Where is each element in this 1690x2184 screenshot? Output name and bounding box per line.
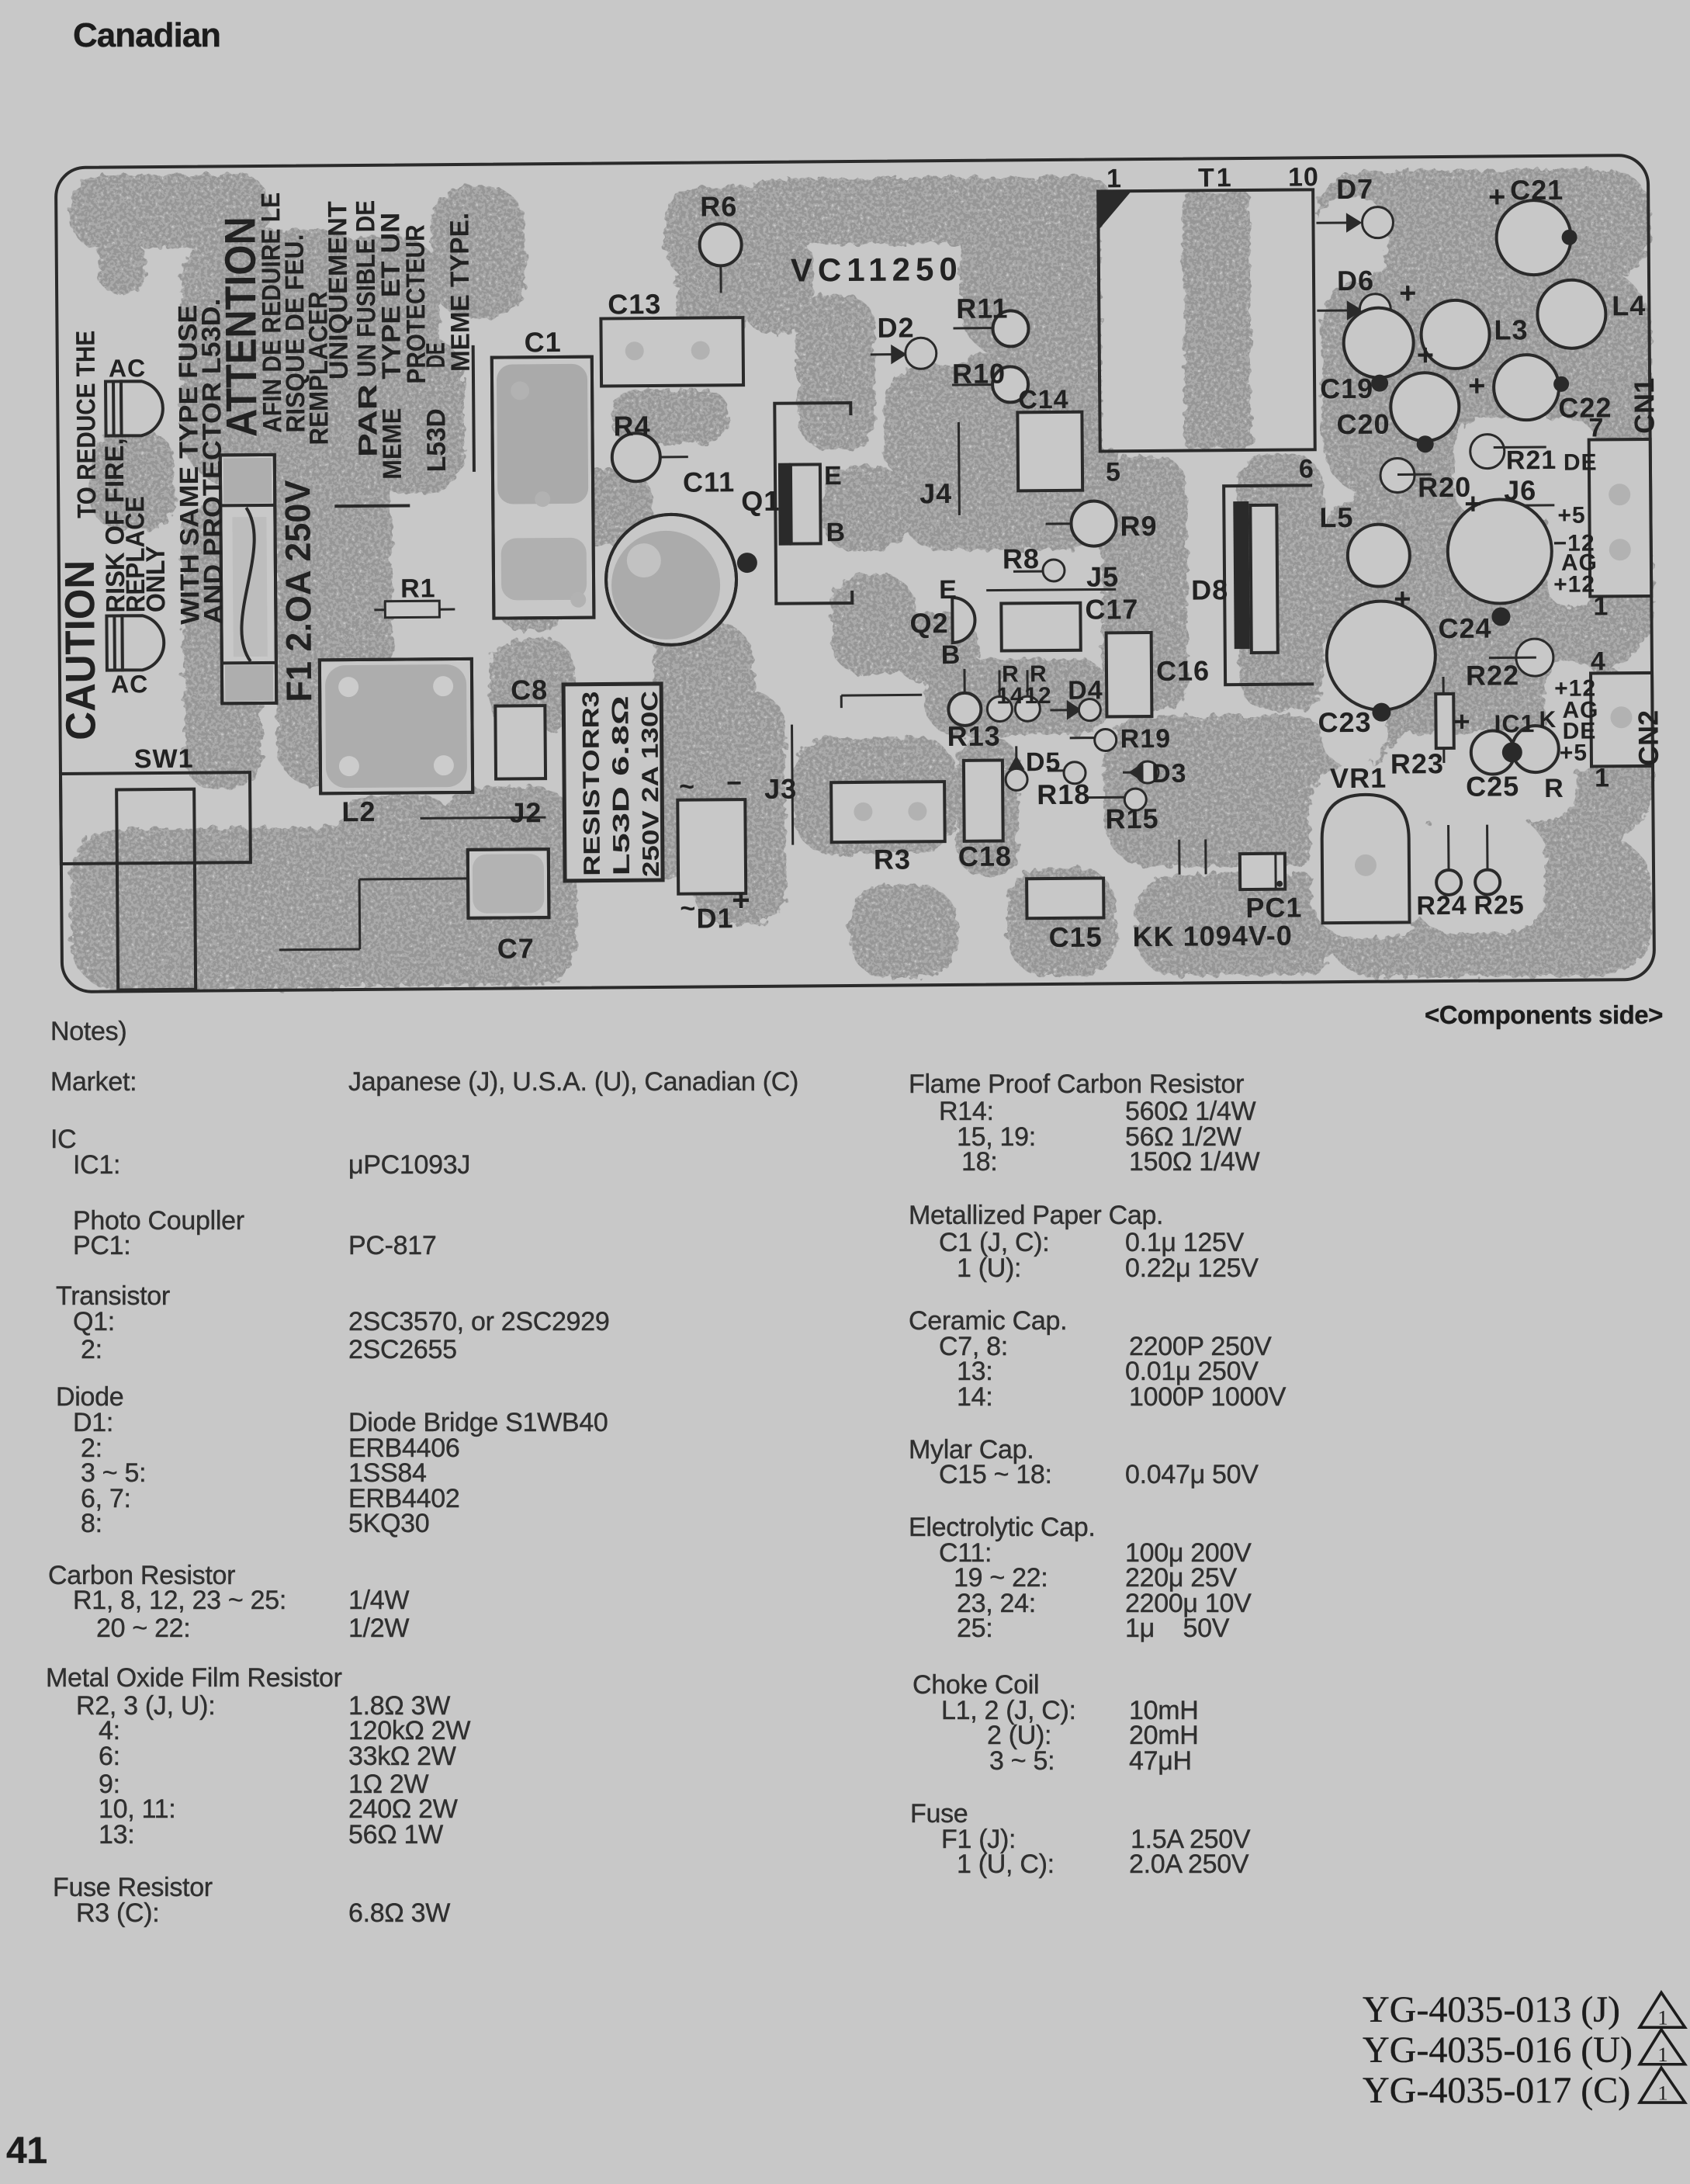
svg-text:MEME: MEME bbox=[377, 408, 407, 480]
svg-text:D5: D5 bbox=[1026, 747, 1061, 777]
svg-text:+5: +5 bbox=[1557, 503, 1585, 529]
svg-text:E: E bbox=[824, 461, 843, 491]
svg-text:6: 6 bbox=[1299, 454, 1314, 484]
svg-text:R: R bbox=[1544, 774, 1564, 803]
svg-text:L2: L2 bbox=[341, 796, 376, 827]
svg-text:Q2: Q2 bbox=[909, 607, 948, 639]
svg-text:MEME TYPE.: MEME TYPE. bbox=[445, 213, 476, 372]
svg-text:L53D: L53D bbox=[421, 408, 452, 472]
svg-text:VC11250: VC11250 bbox=[791, 251, 963, 289]
svg-text:R3: R3 bbox=[874, 843, 911, 875]
svg-text:C25: C25 bbox=[1466, 770, 1519, 803]
svg-text:C1: C1 bbox=[524, 326, 561, 358]
svg-text:C20: C20 bbox=[1336, 408, 1390, 441]
svg-text:IC1: IC1 bbox=[1494, 709, 1535, 737]
svg-text:J4: J4 bbox=[919, 477, 952, 509]
svg-text:R22: R22 bbox=[1466, 659, 1519, 692]
svg-text:J3: J3 bbox=[764, 773, 797, 805]
svg-text:R11: R11 bbox=[956, 292, 1008, 324]
svg-text:R13: R13 bbox=[947, 720, 1000, 753]
svg-text:R24: R24 bbox=[1416, 891, 1467, 921]
svg-text:+5: +5 bbox=[1560, 740, 1588, 766]
svg-text:R4: R4 bbox=[613, 410, 650, 442]
svg-text:D3: D3 bbox=[1151, 759, 1187, 789]
svg-text:C21: C21 bbox=[1510, 174, 1564, 206]
svg-text:−: − bbox=[726, 768, 743, 798]
svg-text:+: + bbox=[732, 883, 751, 917]
svg-text:K: K bbox=[1539, 707, 1557, 733]
svg-text:D1: D1 bbox=[696, 902, 733, 934]
svg-text:+: + bbox=[1468, 370, 1487, 403]
svg-text:L4: L4 bbox=[1612, 289, 1646, 321]
svg-text:ONLY: ONLY bbox=[141, 546, 171, 613]
svg-text:+: + bbox=[1394, 583, 1412, 615]
svg-text:~: ~ bbox=[679, 772, 695, 802]
svg-text:RESISTORR3: RESISTORR3 bbox=[578, 692, 605, 876]
svg-text:E: E bbox=[939, 575, 958, 605]
svg-text:TO REDUCE THE: TO REDUCE THE bbox=[71, 331, 102, 518]
svg-text:R20: R20 bbox=[1418, 471, 1471, 504]
svg-text:AC: AC bbox=[111, 670, 149, 698]
svg-text:1: 1 bbox=[1106, 164, 1122, 193]
svg-text:CAUTION: CAUTION bbox=[57, 560, 105, 740]
svg-text:R23: R23 bbox=[1390, 747, 1444, 780]
svg-text:F1 2.OA 250V: F1 2.OA 250V bbox=[277, 480, 319, 702]
svg-text:14: 14 bbox=[996, 683, 1024, 709]
svg-text:1: 1 bbox=[1657, 2082, 1667, 2105]
svg-text:KK 1094V-0: KK 1094V-0 bbox=[1133, 920, 1293, 953]
svg-text:4: 4 bbox=[1591, 647, 1606, 676]
svg-text:CN2: CN2 bbox=[1632, 710, 1664, 766]
svg-text:10: 10 bbox=[1288, 162, 1319, 192]
svg-text:L3: L3 bbox=[1494, 314, 1528, 345]
svg-text:C17: C17 bbox=[1085, 593, 1138, 626]
svg-text:R6: R6 bbox=[700, 190, 737, 222]
svg-text:B: B bbox=[826, 518, 846, 547]
svg-text:R18: R18 bbox=[1037, 778, 1090, 811]
svg-text:7: 7 bbox=[1588, 413, 1604, 442]
svg-text:UNIQUEMENT: UNIQUEMENT bbox=[323, 201, 354, 380]
svg-text:+12: +12 bbox=[1553, 571, 1595, 597]
svg-text:D7: D7 bbox=[1336, 173, 1373, 205]
svg-text:C8: C8 bbox=[511, 674, 548, 705]
svg-text:VR1: VR1 bbox=[1330, 762, 1387, 795]
svg-text:5: 5 bbox=[1106, 457, 1121, 487]
svg-text:C23: C23 bbox=[1318, 706, 1371, 739]
svg-text:1: 1 bbox=[1657, 2006, 1667, 2030]
svg-text:~: ~ bbox=[680, 894, 696, 924]
svg-text:CN1: CN1 bbox=[1628, 378, 1661, 434]
svg-text:C14: C14 bbox=[1018, 385, 1069, 415]
svg-text:D6: D6 bbox=[1337, 265, 1374, 296]
svg-text:Q1: Q1 bbox=[741, 485, 780, 517]
svg-text:J6: J6 bbox=[1504, 474, 1536, 506]
svg-text:AC: AC bbox=[109, 354, 147, 382]
svg-text:C11: C11 bbox=[683, 466, 735, 498]
svg-text:C18: C18 bbox=[958, 840, 1012, 872]
svg-text:+: + bbox=[1464, 488, 1483, 521]
svg-text:R10: R10 bbox=[952, 357, 1006, 390]
svg-text:C16: C16 bbox=[1156, 654, 1210, 687]
svg-text:+: + bbox=[1417, 339, 1435, 372]
svg-text:R1: R1 bbox=[400, 574, 436, 603]
svg-text:J2: J2 bbox=[509, 796, 542, 828]
svg-text:1: 1 bbox=[1595, 763, 1610, 792]
svg-text:C15: C15 bbox=[1049, 920, 1103, 953]
svg-text:D4: D4 bbox=[1068, 675, 1103, 705]
svg-text:+: + bbox=[1453, 705, 1470, 737]
svg-text:L53D 6.8Ω: L53D 6.8Ω bbox=[608, 695, 635, 875]
svg-text:T1: T1 bbox=[1198, 163, 1234, 192]
svg-text:C13: C13 bbox=[608, 288, 661, 321]
svg-text:R9: R9 bbox=[1120, 510, 1157, 542]
svg-text:12: 12 bbox=[1024, 683, 1052, 709]
svg-text:R15: R15 bbox=[1105, 803, 1158, 835]
svg-text:B: B bbox=[941, 640, 961, 670]
svg-text:PC1: PC1 bbox=[1245, 891, 1302, 924]
svg-text:DE: DE bbox=[1564, 449, 1598, 475]
svg-text:250V 2A 130C: 250V 2A 130C bbox=[637, 691, 664, 877]
svg-text:1: 1 bbox=[1657, 2043, 1667, 2066]
svg-text:+: + bbox=[1488, 181, 1507, 213]
svg-text:R19: R19 bbox=[1120, 724, 1172, 754]
svg-text:1: 1 bbox=[1593, 591, 1609, 621]
svg-text:R8: R8 bbox=[1003, 543, 1040, 574]
svg-text:C19: C19 bbox=[1320, 373, 1373, 405]
svg-text:R25: R25 bbox=[1474, 890, 1525, 920]
svg-text:SW1: SW1 bbox=[134, 744, 194, 775]
svg-text:J5: J5 bbox=[1086, 560, 1119, 592]
svg-text:+: + bbox=[1399, 277, 1418, 310]
svg-text:D2: D2 bbox=[877, 311, 914, 343]
svg-text:D8: D8 bbox=[1191, 574, 1228, 605]
svg-text:C24: C24 bbox=[1438, 612, 1491, 645]
svg-text:L5: L5 bbox=[1319, 501, 1353, 533]
svg-text:C7: C7 bbox=[497, 932, 535, 964]
svg-text:R21: R21 bbox=[1506, 445, 1557, 476]
